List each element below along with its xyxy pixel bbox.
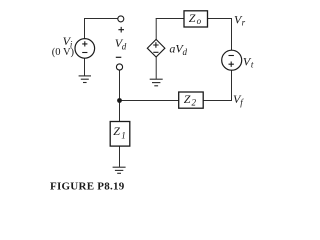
ground under Vi: [79, 76, 91, 83]
svg-text:r: r: [242, 18, 246, 28]
source Vi circle: [75, 39, 95, 59]
impedance Zo box: [184, 11, 208, 27]
svg-text:Z: Z: [184, 92, 191, 106]
impedance Z1 box: [110, 122, 130, 147]
svg-text:d: d: [122, 41, 127, 51]
plus label above Vd: [118, 27, 124, 33]
wire terminal (minus) down to node A: [119, 70, 121, 100]
svg-text:1: 1: [121, 130, 126, 140]
node A junction dot: [117, 98, 122, 103]
dependent source aVd diamond: [147, 39, 165, 57]
wire Vi top vertical: [84, 18, 86, 39]
wire node A to Z2: [120, 100, 179, 102]
minus inside diamond: [153, 51, 158, 53]
minus label below Vd: [116, 56, 122, 58]
minus inside Vi: [82, 52, 87, 54]
plus inside Vt: [229, 62, 234, 67]
wire node A down to Z1: [119, 101, 121, 122]
wire diamond top vertical: [155, 19, 157, 40]
ground under Z1: [113, 167, 126, 173]
svg-text:o: o: [197, 16, 202, 26]
wire Z2 to Vf node: [203, 100, 232, 102]
svg-text:2: 2: [192, 98, 197, 108]
impedance Z2 box: [179, 92, 204, 108]
wire top-left horizontal (Vi to + terminal): [85, 18, 118, 20]
wire Z1 bottom to ground: [119, 146, 121, 167]
svg-text:Z: Z: [113, 124, 120, 138]
wire Zo to Vr corner horizontal: [208, 18, 232, 20]
plus inside Vi: [82, 41, 87, 46]
wire diamond to Zo horizontal: [156, 18, 184, 20]
svg-text:d: d: [183, 47, 188, 57]
wire Vi bottom to ground: [84, 58, 86, 75]
svg-text:(0 V): (0 V): [52, 47, 75, 58]
svg-text:FIGURE P8.19: FIGURE P8.19: [50, 180, 125, 192]
ground under diamond: [150, 79, 163, 86]
source Vt circle: [222, 50, 242, 70]
svg-text:Z: Z: [189, 11, 196, 25]
plus inside diamond: [153, 42, 158, 47]
wire Vr corner down to Vt top: [231, 18, 233, 50]
wire Vt bottom down to Vf node: [231, 70, 233, 101]
terminal bottom (− of Vd): [116, 64, 122, 70]
terminal top (+ of Vd): [118, 16, 124, 22]
minus inside Vt: [229, 55, 234, 57]
wire diamond bottom to ground: [155, 57, 157, 79]
